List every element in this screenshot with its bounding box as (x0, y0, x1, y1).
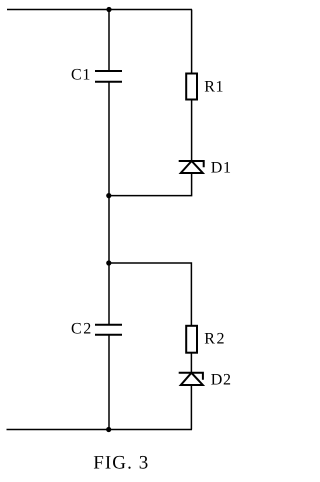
svg-text:FIG. 3: FIG. 3 (93, 452, 149, 473)
svg-text:R2: R2 (204, 331, 226, 348)
svg-text:D2: D2 (211, 372, 232, 389)
svg-text:D1: D1 (211, 160, 232, 177)
svg-text:C2: C2 (71, 321, 93, 338)
svg-text:C1: C1 (71, 67, 91, 84)
svg-text:R1: R1 (204, 79, 224, 96)
